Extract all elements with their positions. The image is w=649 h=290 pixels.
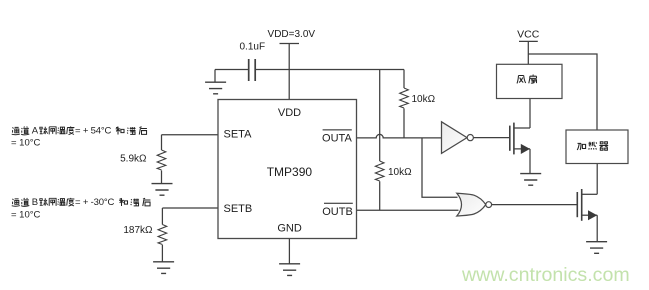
- svg-text:5.9kΩ: 5.9kΩ: [120, 154, 147, 165]
- svg-text:= + -30°C: = + -30°C: [75, 197, 114, 208]
- wire ground lead (decoupling): [214, 70, 216, 83]
- wire Q1 source to ground: [529, 149, 531, 174]
- wire R1 bottom lead: [403, 108, 405, 138]
- resistor R2 10kOhm (OUTB pull-up): [375, 161, 384, 181]
- wire VCC branch to heater: [528, 54, 597, 130]
- wire fan bottom to Q1 drain: [529, 99, 531, 129]
- svg-text:= 10°C: = 10°C: [11, 209, 41, 220]
- svg-text:0.1uF: 0.1uF: [240, 42, 266, 53]
- transistor Q2 (heater driver NMOS): [577, 189, 597, 221]
- fan box 风扇: [497, 64, 563, 98]
- wire OUTA drop to NOR top input: [422, 138, 458, 197]
- svg-text:TMP390: TMP390: [267, 165, 313, 179]
- svg-text:187kΩ: 187kΩ: [123, 225, 153, 236]
- svg-text:10kΩ: 10kΩ: [412, 94, 436, 105]
- annotation channel A line 1: [12, 126, 147, 137]
- wire IC GND lead: [288, 239, 290, 264]
- svg-text:VCC: VCC: [517, 29, 540, 41]
- inverter U2: [442, 122, 468, 154]
- wire OUTA with hop over R2 lead: [357, 134, 442, 137]
- ground G1 (decoupling cap): [205, 82, 226, 94]
- wire R1 top lead: [403, 70, 405, 89]
- svg-text:GND: GND: [277, 222, 302, 234]
- svg-text:B: B: [32, 197, 38, 208]
- ground G6 (IC GND pin): [279, 264, 300, 276]
- wire top rail left of capacitor: [215, 69, 248, 71]
- ground G3 (below Q1): [520, 174, 541, 186]
- wire SETA to IC: [162, 134, 219, 136]
- annotation channel B line 1: [12, 197, 151, 208]
- wire NOR output to Q2 gate: [492, 204, 578, 206]
- svg-text:= + 54°C: = + 54°C: [75, 126, 111, 137]
- heater box 加热器: [566, 130, 628, 164]
- ground G2 (below RA): [152, 184, 173, 196]
- wire heater bottom to Q2 drain: [596, 164, 598, 195]
- capacitor C1 0.1uF plates: [249, 59, 256, 81]
- svg-text:VDD: VDD: [278, 107, 301, 119]
- wire OUTB to NOR bottom input: [357, 209, 459, 211]
- IC U1 TMP390: [218, 100, 357, 239]
- NOR gate U3: [457, 193, 486, 216]
- wire Q2 source to ground: [596, 215, 598, 241]
- power VDD bar: [280, 43, 300, 45]
- svg-text:OUTA: OUTA: [322, 133, 352, 145]
- wire top rail right of capacitor to R1: [255, 69, 404, 71]
- wire RB bottom lead: [161, 245, 163, 262]
- svg-text:VDD=3.0V: VDD=3.0V: [268, 29, 316, 40]
- wire RB top lead: [161, 208, 163, 225]
- svg-text:10kΩ: 10kΩ: [388, 167, 412, 178]
- resistor RA 5.9kOhm: [157, 150, 166, 170]
- transistor Q1 (fan driver NMOS): [510, 123, 530, 155]
- svg-text:= 10°C: = 10°C: [11, 137, 41, 148]
- svg-text:www.cntronics.com: www.cntronics.com: [461, 264, 630, 286]
- svg-text:SETB: SETB: [224, 203, 253, 215]
- wire VDD vertical to IC: [288, 44, 290, 100]
- svg-text:A: A: [32, 126, 39, 137]
- svg-text:SETA: SETA: [224, 129, 253, 141]
- wire R2 bottom lead: [379, 181, 381, 210]
- svg-text:OUTB: OUTB: [322, 206, 353, 218]
- ground G4 (below Q2): [586, 242, 607, 254]
- power VCC bar: [519, 40, 538, 42]
- wire VCC vertical to fan: [527, 41, 529, 64]
- wire RA bottom lead: [161, 171, 163, 184]
- wire inverter output to Q1 gate: [473, 137, 509, 139]
- wire RA top lead: [161, 135, 163, 150]
- wire R2 top lead: [379, 70, 381, 162]
- resistor RB 187kOhm: [158, 225, 167, 245]
- ground G5 (below RB): [153, 262, 174, 274]
- wire SETB to IC: [162, 207, 218, 209]
- resistor R1 10kOhm (OUTA pull-up): [400, 88, 409, 108]
